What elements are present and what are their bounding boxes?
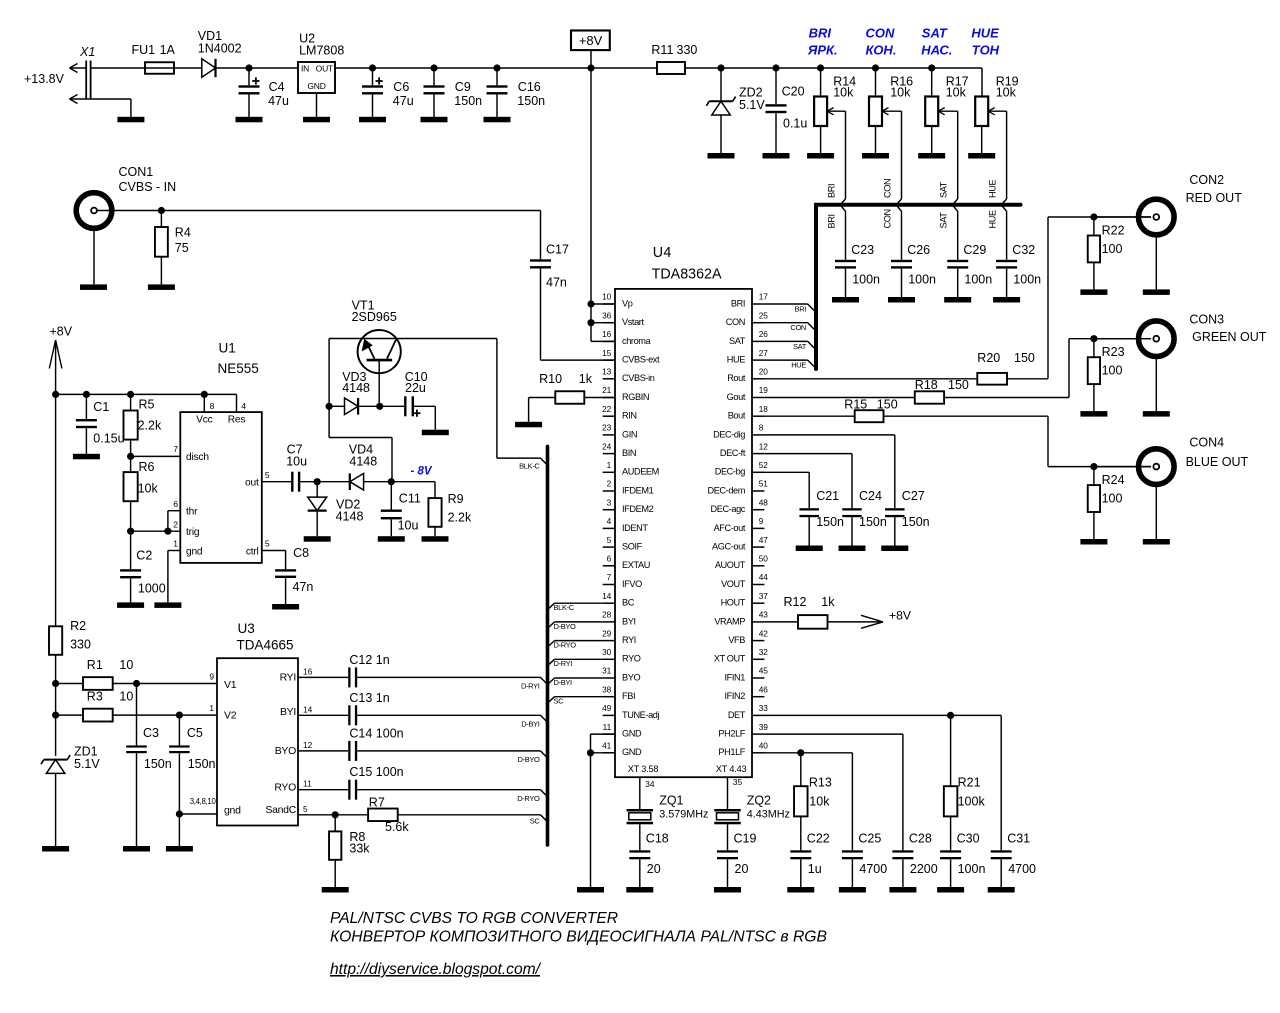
svg-text:BRI: BRI (731, 298, 745, 308)
svg-text:150: 150 (877, 397, 898, 411)
svg-text:LM7808: LM7808 (299, 44, 344, 58)
svg-text:31: 31 (602, 666, 612, 676)
svg-text:30: 30 (602, 647, 612, 657)
svg-text:CON2: CON2 (1189, 173, 1224, 187)
svg-text:12: 12 (303, 740, 313, 750)
svg-text:D-RYI: D-RYI (554, 659, 573, 668)
svg-text:R13: R13 (809, 776, 832, 790)
svg-text:IFDEM1: IFDEM1 (622, 485, 654, 495)
svg-text:C25: C25 (858, 832, 881, 846)
svg-text:CON: CON (790, 323, 806, 332)
svg-text:1k: 1k (821, 595, 835, 609)
svg-text:BRI: BRI (827, 214, 837, 228)
svg-text:330: 330 (677, 43, 698, 57)
svg-text:IDENT: IDENT (622, 523, 648, 533)
svg-text:51: 51 (759, 479, 769, 489)
svg-text:CON3: CON3 (1189, 313, 1224, 327)
svg-text:HUE: HUE (791, 361, 806, 370)
svg-text:2: 2 (607, 479, 612, 489)
svg-text:CVBS-ext: CVBS-ext (622, 355, 660, 365)
svg-text:150n: 150n (859, 515, 887, 529)
svg-text:SC: SC (554, 697, 565, 706)
svg-text:24: 24 (602, 441, 612, 451)
svg-text:XT 3.58: XT 3.58 (628, 764, 659, 774)
svg-text:D-BYI: D-BYI (521, 720, 540, 729)
svg-text:16: 16 (303, 666, 313, 676)
svg-text:RYO: RYO (622, 654, 641, 664)
svg-text:0.1u: 0.1u (783, 117, 807, 131)
svg-text:5: 5 (265, 470, 270, 480)
svg-text:1k: 1k (579, 372, 593, 386)
svg-text:R9: R9 (448, 492, 464, 506)
svg-text:XT 4.43: XT 4.43 (716, 764, 747, 774)
svg-text:100: 100 (1102, 242, 1123, 256)
svg-text:BRI: BRI (809, 25, 832, 40)
svg-text:TDA4665: TDA4665 (237, 637, 294, 652)
svg-text:C8: C8 (293, 546, 309, 560)
svg-text:10u: 10u (398, 518, 419, 532)
svg-text:7: 7 (173, 444, 178, 454)
svg-text:IFVO: IFVO (622, 579, 642, 589)
svg-text:C4: C4 (269, 80, 285, 94)
svg-text:PH1LF: PH1LF (718, 747, 745, 757)
svg-text:C16: C16 (518, 80, 541, 94)
svg-text:3.579MHz: 3.579MHz (659, 808, 708, 820)
svg-text:U1: U1 (219, 341, 236, 356)
svg-text:AFC-out: AFC-out (714, 523, 746, 533)
svg-text:R18: R18 (915, 378, 938, 392)
svg-text:100n: 100n (908, 273, 936, 287)
svg-text:37: 37 (759, 591, 769, 601)
svg-text:1N4002: 1N4002 (198, 42, 242, 56)
svg-text:Vp: Vp (622, 298, 633, 308)
svg-text:IN: IN (301, 64, 309, 74)
svg-text:C31: C31 (1007, 832, 1030, 846)
svg-text:R11: R11 (651, 43, 673, 57)
svg-text:4700: 4700 (859, 862, 887, 876)
svg-text:150n: 150n (902, 515, 930, 529)
svg-text:RED OUT: RED OUT (1186, 191, 1243, 205)
svg-text:CON: CON (726, 317, 745, 327)
svg-text:52: 52 (759, 460, 769, 470)
svg-text:Bout: Bout (728, 411, 746, 421)
svg-text:R10: R10 (539, 372, 562, 386)
svg-text:47n: 47n (293, 580, 314, 594)
svg-text:1u: 1u (808, 862, 822, 876)
svg-text:- 8V: - 8V (411, 466, 433, 478)
svg-text:BYI: BYI (622, 616, 636, 626)
svg-text:IFIN2: IFIN2 (725, 691, 746, 701)
svg-text:150: 150 (1014, 351, 1035, 365)
svg-text:4: 4 (241, 401, 246, 411)
svg-text:http://diyservice.blogspot.com: http://diyservice.blogspot.com/ (330, 961, 542, 978)
svg-text:26: 26 (759, 329, 769, 339)
svg-text:12: 12 (759, 441, 769, 451)
svg-text:VOUT: VOUT (721, 579, 746, 589)
svg-text:33: 33 (759, 703, 769, 713)
svg-text:PAL/NTSC CVBS TO RGB CONVERTER: PAL/NTSC CVBS TO RGB CONVERTER (330, 910, 618, 927)
svg-text:C32: C32 (1012, 243, 1035, 257)
svg-text:chroma: chroma (622, 336, 652, 346)
svg-text:7: 7 (607, 572, 612, 582)
svg-text:150: 150 (948, 378, 969, 392)
svg-text:R6: R6 (139, 460, 155, 474)
svg-text:C1: C1 (93, 400, 109, 414)
svg-text:17: 17 (759, 292, 769, 302)
svg-text:TDA8362A: TDA8362A (652, 267, 722, 283)
svg-text:BLK-C: BLK-C (554, 603, 575, 612)
svg-text:GREEN OUT: GREEN OUT (1192, 330, 1267, 344)
svg-text:DET: DET (728, 710, 746, 720)
svg-text:100n: 100n (852, 273, 880, 287)
svg-text:1: 1 (209, 703, 214, 713)
svg-text:1000: 1000 (138, 582, 166, 596)
svg-text:47u: 47u (268, 94, 289, 108)
svg-text:V1: V1 (224, 679, 237, 691)
svg-text:10k: 10k (996, 86, 1017, 100)
svg-text:18: 18 (759, 404, 769, 414)
svg-text:BIN: BIN (622, 448, 636, 458)
svg-text:D-BYI: D-BYI (554, 678, 573, 687)
svg-text:1: 1 (607, 460, 612, 470)
svg-text:+13.8V: +13.8V (24, 72, 65, 86)
svg-text:CON: CON (883, 179, 893, 198)
svg-text:DEC-agc: DEC-agc (711, 504, 746, 514)
svg-text:C11: C11 (399, 492, 421, 506)
svg-text:BRI: BRI (827, 184, 837, 198)
svg-text:2200: 2200 (910, 862, 938, 876)
svg-text:15: 15 (602, 348, 612, 358)
svg-text:100n: 100n (1013, 273, 1041, 287)
svg-text:HUE: HUE (988, 210, 998, 228)
svg-text:DEC-dig: DEC-dig (713, 429, 745, 439)
svg-text:BYO: BYO (275, 745, 296, 757)
svg-text:100k: 100k (958, 795, 986, 809)
svg-text:C21: C21 (816, 489, 839, 503)
svg-text:D-RYO: D-RYO (554, 641, 577, 650)
svg-text:13: 13 (602, 367, 612, 377)
svg-text:disch: disch (186, 452, 209, 463)
svg-text:5.6k: 5.6k (385, 820, 409, 834)
svg-text:SAT: SAT (922, 25, 948, 40)
svg-text:4148: 4148 (342, 381, 370, 395)
svg-text:100n: 100n (964, 273, 992, 287)
svg-text:Res: Res (228, 415, 246, 426)
svg-text:SAT: SAT (793, 342, 807, 351)
svg-text:out: out (245, 478, 259, 489)
svg-text:HUE: HUE (988, 180, 998, 198)
svg-text:C23: C23 (851, 243, 874, 257)
svg-text:5.1V: 5.1V (739, 98, 765, 112)
svg-text:BYI: BYI (280, 706, 296, 718)
svg-text:TUNE-adj: TUNE-adj (622, 710, 659, 720)
svg-text:4: 4 (607, 516, 612, 526)
svg-text:gnd: gnd (186, 547, 203, 558)
svg-text:3,4,8,10: 3,4,8,10 (190, 797, 217, 806)
svg-text:22: 22 (602, 404, 612, 414)
svg-text:CVBS - IN: CVBS - IN (119, 180, 177, 194)
svg-text:RYO: RYO (274, 782, 296, 794)
svg-text:AUOUT: AUOUT (715, 560, 746, 570)
svg-text:330: 330 (70, 637, 91, 651)
svg-text:28: 28 (602, 610, 612, 620)
svg-text:6: 6 (173, 499, 178, 509)
svg-text:CON4: CON4 (1189, 436, 1224, 450)
svg-text:10k: 10k (138, 482, 159, 496)
svg-text:FU1: FU1 (132, 43, 156, 57)
svg-text:R4: R4 (175, 226, 191, 240)
svg-text:BRI: BRI (795, 304, 807, 313)
svg-text:trig: trig (186, 527, 200, 538)
svg-text:R7: R7 (369, 796, 385, 810)
svg-text:10k: 10k (809, 795, 830, 809)
svg-text:C18: C18 (646, 832, 669, 846)
svg-text:10k: 10k (890, 86, 911, 100)
svg-text:HOUT: HOUT (721, 598, 746, 608)
svg-text:2SD965: 2SD965 (352, 310, 397, 324)
svg-text:8: 8 (210, 401, 215, 411)
svg-text:44: 44 (759, 572, 769, 582)
svg-text:C9: C9 (455, 80, 471, 94)
svg-text:2.2k: 2.2k (138, 418, 162, 432)
svg-text:IFDEM2: IFDEM2 (622, 504, 654, 514)
svg-text:10: 10 (119, 658, 133, 672)
svg-text:AGC-out: AGC-out (712, 542, 746, 552)
svg-text:CON1: CON1 (119, 165, 154, 179)
svg-text:BC: BC (622, 598, 635, 608)
svg-text:6: 6 (607, 554, 612, 564)
svg-text:CVBS-in: CVBS-in (622, 373, 655, 383)
svg-text:Vstart: Vstart (622, 317, 644, 327)
svg-text:4148: 4148 (336, 509, 364, 523)
svg-text:C3: C3 (143, 726, 159, 740)
svg-text:C19: C19 (734, 832, 757, 846)
svg-text:U3: U3 (238, 621, 255, 636)
svg-text:EXTAU: EXTAU (622, 560, 650, 570)
svg-text:46: 46 (759, 684, 769, 694)
svg-text:36: 36 (602, 310, 612, 320)
svg-text:100n: 100n (958, 862, 986, 876)
svg-text:10u: 10u (286, 454, 307, 468)
svg-text:NE555: NE555 (218, 361, 259, 376)
svg-text:DEC-ft: DEC-ft (720, 448, 746, 458)
svg-text:43: 43 (759, 610, 769, 620)
svg-text:1: 1 (173, 539, 178, 549)
svg-text:33k: 33k (349, 842, 370, 856)
svg-text:HUE: HUE (727, 355, 745, 365)
svg-text:11: 11 (303, 779, 312, 789)
svg-text:100: 100 (1102, 364, 1123, 378)
svg-text:V2: V2 (224, 709, 237, 721)
svg-text:23: 23 (602, 423, 612, 433)
svg-text:КОН.: КОН. (866, 43, 897, 58)
svg-text:4.43MHz: 4.43MHz (747, 808, 790, 820)
svg-text:R2: R2 (70, 619, 86, 633)
svg-text:XT OUT: XT OUT (714, 654, 746, 664)
svg-text:CON: CON (866, 25, 896, 40)
svg-text:ZQ2: ZQ2 (747, 794, 771, 808)
svg-text:OUT: OUT (316, 64, 333, 74)
svg-text:+8V: +8V (579, 33, 603, 48)
svg-text:DEC-bg: DEC-bg (715, 467, 746, 477)
svg-text:38: 38 (602, 684, 612, 694)
svg-text:+8V: +8V (50, 324, 73, 338)
svg-text:SAT: SAT (729, 336, 746, 346)
svg-text:5: 5 (265, 539, 270, 549)
svg-text:C15 100n: C15 100n (349, 765, 403, 779)
svg-text:R24: R24 (1102, 473, 1125, 487)
svg-text:GND: GND (622, 747, 642, 757)
svg-text:C13 1n: C13 1n (349, 691, 389, 705)
svg-text:22u: 22u (405, 381, 426, 395)
svg-text:10k: 10k (946, 86, 967, 100)
svg-text:КОНВЕРТОР КОМПОЗИТНОГО ВИДЕОСИ: КОНВЕРТОР КОМПОЗИТНОГО ВИДЕОСИГНАЛА PAL/… (330, 929, 827, 946)
svg-text:SAT: SAT (939, 181, 949, 198)
svg-text:C6: C6 (393, 80, 409, 94)
svg-text:27: 27 (759, 348, 769, 358)
svg-text:PH2LF: PH2LF (718, 729, 745, 739)
svg-text:C27: C27 (902, 489, 925, 503)
svg-text:C26: C26 (907, 243, 930, 257)
svg-text:14: 14 (303, 704, 313, 714)
svg-text:R22: R22 (1102, 224, 1125, 238)
svg-text:VRAMP: VRAMP (714, 616, 745, 626)
svg-text:FBI: FBI (622, 691, 635, 701)
svg-text:C28: C28 (909, 832, 932, 846)
svg-text:SAT: SAT (939, 212, 949, 229)
svg-text:ТОН: ТОН (972, 43, 1000, 58)
svg-text:150n: 150n (517, 94, 545, 108)
svg-text:C20: C20 (782, 85, 805, 99)
svg-text:3: 3 (607, 497, 612, 507)
svg-text:+8V: +8V (889, 608, 912, 622)
svg-text:2: 2 (173, 520, 178, 530)
svg-text:SOIF: SOIF (622, 542, 643, 552)
svg-text:SandC: SandC (265, 804, 296, 816)
svg-text:D-RYO: D-RYO (517, 794, 540, 803)
svg-text:AUDEEM: AUDEEM (622, 467, 659, 477)
svg-text:29: 29 (602, 628, 612, 638)
svg-text:R15: R15 (844, 397, 867, 411)
svg-text:5: 5 (303, 804, 308, 814)
svg-text:11: 11 (603, 722, 612, 732)
svg-text:9: 9 (759, 516, 764, 526)
svg-text:R20: R20 (977, 351, 1000, 365)
svg-text:RYI: RYI (280, 671, 296, 683)
svg-text:5: 5 (607, 535, 612, 545)
svg-text:GND: GND (622, 729, 642, 739)
svg-text:DEC-dem: DEC-dem (707, 485, 745, 495)
svg-text:C29: C29 (963, 243, 986, 257)
svg-text:gnd: gnd (224, 805, 241, 817)
svg-text:R21: R21 (958, 776, 981, 790)
svg-text:8: 8 (759, 423, 764, 433)
svg-text:10k: 10k (833, 86, 854, 100)
svg-text:49: 49 (602, 703, 612, 713)
svg-text:25: 25 (759, 310, 769, 320)
svg-text:C2: C2 (136, 549, 152, 563)
svg-text:BLUE OUT: BLUE OUT (1186, 455, 1249, 469)
svg-text:32: 32 (759, 647, 769, 657)
svg-text:19: 19 (759, 385, 769, 395)
svg-text:150n: 150n (816, 515, 844, 529)
svg-text:Gout: Gout (727, 392, 746, 402)
svg-text:thr: thr (186, 506, 198, 517)
svg-text:100: 100 (1102, 492, 1123, 506)
svg-text:5.1V: 5.1V (74, 757, 100, 771)
svg-text:4700: 4700 (1008, 862, 1036, 876)
svg-text:47: 47 (759, 535, 769, 545)
svg-text:BYO: BYO (622, 672, 640, 682)
svg-text:35: 35 (733, 777, 743, 787)
svg-text:HUE: HUE (971, 25, 999, 40)
svg-text:48: 48 (759, 497, 769, 507)
svg-text:X1: X1 (79, 45, 95, 59)
svg-text:Vcc: Vcc (196, 415, 212, 426)
svg-text:14: 14 (602, 591, 612, 601)
svg-text:RIN: RIN (622, 411, 637, 421)
svg-text:НАС.: НАС. (921, 43, 952, 58)
svg-text:C22: C22 (807, 832, 830, 846)
svg-text:150n: 150n (454, 94, 482, 108)
svg-text:45: 45 (759, 666, 769, 676)
svg-text:40: 40 (759, 741, 769, 751)
svg-text:41: 41 (602, 741, 612, 751)
svg-text:C24: C24 (859, 489, 882, 503)
svg-text:BLK-C: BLK-C (519, 462, 540, 471)
svg-text:47u: 47u (393, 94, 414, 108)
svg-text:16: 16 (602, 329, 612, 339)
svg-text:IFIN1: IFIN1 (725, 672, 746, 682)
svg-text:150n: 150n (188, 757, 216, 771)
svg-text:20: 20 (735, 862, 749, 876)
svg-text:R5: R5 (139, 398, 155, 412)
svg-text:R1: R1 (87, 658, 103, 672)
svg-text:ЯРК.: ЯРК. (807, 43, 838, 58)
svg-text:47n: 47n (546, 276, 567, 290)
svg-text:20: 20 (759, 367, 769, 377)
svg-text:9: 9 (209, 672, 214, 682)
svg-text:20: 20 (647, 862, 661, 876)
svg-text:C12 1n: C12 1n (349, 653, 389, 667)
svg-text:2.2k: 2.2k (448, 511, 472, 525)
svg-text:ZQ1: ZQ1 (659, 794, 683, 808)
svg-text:GIN: GIN (622, 429, 637, 439)
svg-text:D-BYO: D-BYO (517, 755, 540, 764)
svg-text:39: 39 (759, 722, 769, 732)
svg-text:21: 21 (602, 385, 612, 395)
svg-text:0.15u: 0.15u (93, 432, 124, 446)
svg-text:VFB: VFB (728, 635, 745, 645)
svg-text:4148: 4148 (349, 454, 377, 468)
svg-text:C30: C30 (957, 832, 980, 846)
svg-text:42: 42 (759, 628, 769, 638)
svg-text:34: 34 (645, 779, 655, 789)
svg-text:GND: GND (307, 81, 325, 91)
svg-text:10: 10 (119, 690, 133, 704)
svg-text:Rout: Rout (727, 373, 746, 383)
svg-text:C17: C17 (546, 243, 569, 257)
svg-text:D-BYO: D-BYO (554, 622, 577, 631)
svg-text:RYI: RYI (622, 635, 636, 645)
svg-text:150n: 150n (144, 757, 172, 771)
svg-text:C5: C5 (187, 726, 203, 740)
svg-text:75: 75 (175, 241, 189, 255)
svg-text:CON: CON (883, 209, 893, 228)
svg-text:10: 10 (602, 292, 612, 302)
svg-text:1A: 1A (160, 43, 176, 57)
svg-text:C14 100n: C14 100n (349, 726, 403, 740)
